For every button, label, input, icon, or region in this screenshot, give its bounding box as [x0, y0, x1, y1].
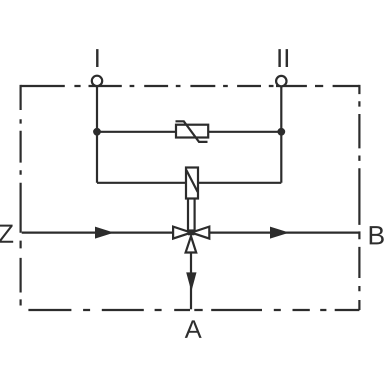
junction dot right: [277, 128, 285, 136]
wire: upper horizontal left segment to restrictor: [97, 131, 176, 133]
port label B: [370, 226, 384, 244]
flow arrow on B line: [270, 227, 289, 239]
wire: upper horizontal right segment from restrictor: [208, 131, 281, 133]
enclosure border left (dash-dot chain line): [20, 85, 22, 306]
valve element diagonal: [186, 170, 197, 192]
shuttle valve right triangle: [191, 227, 209, 239]
wire: valve stem double line left: [187, 199, 189, 232]
wire: Z line: [22, 232, 173, 234]
wire: B line: [209, 232, 358, 234]
restrictor adjustment diagonal with hooks: [176, 121, 208, 142]
junction dot left: [93, 128, 101, 136]
wire: vertical from port II down to lower rung: [280, 86, 282, 183]
port label A: [185, 320, 202, 338]
port label I: [96, 49, 98, 67]
port circle I: [92, 76, 102, 86]
port circle II: [276, 76, 286, 86]
wire: vertical from port I down to lower rung: [96, 86, 98, 183]
restrictor body: [176, 125, 208, 138]
shuttle valve center junction block: [188, 229, 194, 235]
shuttle valve left triangle: [173, 227, 191, 239]
wire: lower horizontal rung: [97, 182, 281, 184]
wire: down to port A: [190, 253, 192, 310]
valve element body: [186, 168, 198, 199]
wire: valve stem double line right: [194, 199, 196, 232]
enclosure border bottom (dash-dot chain line): [28, 309, 359, 311]
port label II (two I glyphs): [278, 49, 280, 67]
check valve up triangle toward junction: [186, 236, 197, 252]
enclosure border right (dash-dot chain line): [358, 85, 360, 310]
flow arrow down to A: [186, 272, 196, 291]
port label Z: [0, 225, 13, 243]
flow arrow on Z line: [95, 227, 114, 239]
enclosure border top (dash-dot chain line): [21, 85, 360, 87]
